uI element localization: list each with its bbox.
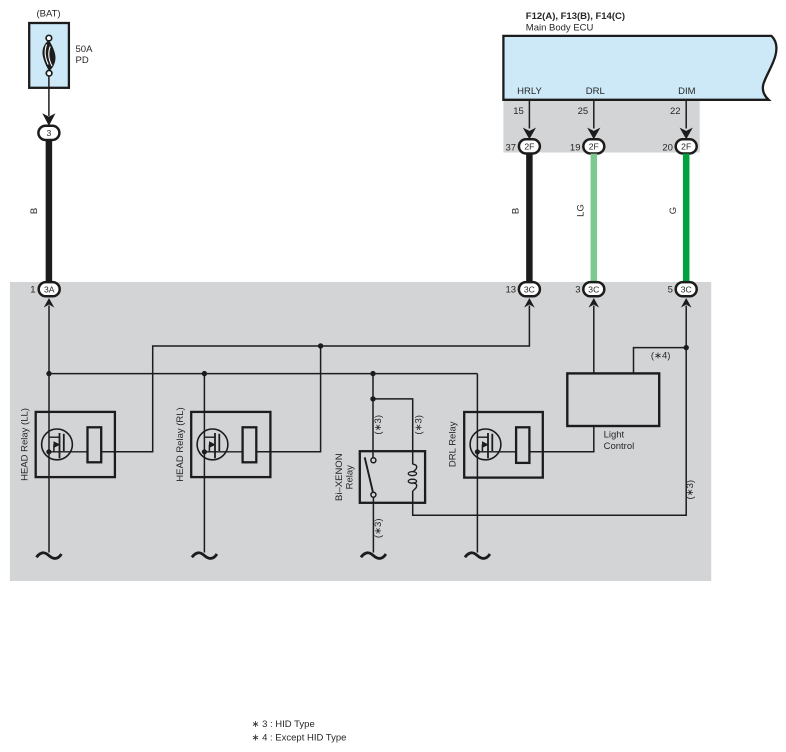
arrow below 3C: [524, 298, 535, 308]
svg-text:22: 22: [670, 106, 681, 117]
wire from 3A down to ground (HEAD LL feed): [48, 306, 50, 553]
svg-text:Main Body ECU: Main Body ECU: [526, 23, 594, 34]
resistor HEAD RL coil: [243, 427, 257, 462]
ground: [465, 553, 490, 559]
svg-text:DRL Relay: DRL Relay: [448, 421, 459, 467]
connector 3: [38, 126, 59, 140]
ground: [361, 553, 386, 559]
wire branch to HEAD RL coil: [256, 346, 320, 452]
svg-text:3C: 3C: [681, 284, 692, 294]
arrow below 3C: [681, 298, 692, 308]
svg-text:3: 3: [47, 128, 52, 138]
svg-text:50A: 50A: [76, 44, 94, 55]
svg-text:DIM: DIM: [678, 86, 696, 97]
node junction bus/HEAD RL: [202, 371, 207, 376]
svg-text:(BAT): (BAT): [36, 9, 60, 20]
transistor Q-DRL (DRL contact): [470, 429, 501, 460]
wire contact to resistor (RL): [204, 451, 242, 453]
transistor Q-RL (HEAD RL contact): [197, 429, 228, 460]
wire DRL feed down to ground: [476, 374, 478, 553]
wire coil return to 5(3C): [413, 306, 687, 516]
wire HRLY net: 13(3C) to relay coils: [101, 306, 529, 452]
main harness panel (gray): [10, 282, 711, 581]
node junction HRLY/RL: [318, 343, 323, 348]
svg-text:Bi–XENON: Bi–XENON: [334, 453, 345, 501]
svg-text:5: 5: [668, 285, 673, 296]
svg-text:PD: PD: [76, 55, 89, 66]
node junction bus at B feed: [46, 371, 51, 376]
arrow into connector 3: [42, 113, 55, 126]
wire contact to resistor (LL): [49, 451, 88, 453]
svg-text:15: 15: [513, 106, 524, 117]
wire (＊4) branch to Light Control: [634, 348, 687, 374]
Light Control unit: [567, 373, 659, 426]
svg-text:13: 13: [506, 285, 517, 296]
svg-text:25: 25: [578, 106, 589, 117]
svg-text:19: 19: [570, 142, 581, 153]
svg-text:3C: 3C: [524, 284, 535, 294]
svg-text:(∗3): (∗3): [373, 415, 384, 435]
wire DRL coil to Light Control: [529, 426, 593, 452]
svg-text:2F: 2F: [524, 142, 534, 152]
wire LG (DRL to 3-3C, light green): [591, 154, 598, 283]
svg-text:3A: 3A: [44, 284, 55, 294]
node junction bus/Bi-XENON: [370, 371, 375, 376]
ground: [36, 553, 61, 559]
arrow into 2F (20): [680, 128, 693, 140]
wire branch to Bi-XENON coil: [373, 399, 413, 464]
svg-text:∗ 4 : Except HID Type: ∗ 4 : Except HID Type: [252, 733, 347, 744]
svg-text:G: G: [668, 207, 679, 214]
wire G (DIM to 5-3C, green): [683, 154, 690, 283]
switch Bi-XENON contacts: [365, 457, 373, 492]
svg-text:Light: Light: [604, 430, 625, 441]
wire HEAD RL feed down to ground: [203, 374, 205, 553]
node junction Bi-XENON coil branch: [370, 396, 375, 401]
resistor HEAD LL coil: [88, 427, 102, 462]
svg-text:(∗4): (∗4): [651, 351, 671, 362]
arrow below 3C: [589, 298, 600, 308]
transistor Q-LL (HEAD LL contact): [42, 429, 73, 460]
svg-text:(∗3): (∗3): [685, 480, 696, 500]
svg-text:LG: LG: [576, 204, 587, 217]
wire B (HRLY to 13-3C, thick black): [526, 154, 533, 283]
svg-text:HEAD Relay (RL): HEAD Relay (RL): [175, 407, 186, 481]
svg-text:Control: Control: [604, 441, 635, 452]
arrow into 2F (37): [523, 128, 536, 140]
svg-text:B: B: [29, 208, 40, 214]
svg-text:F12(A), F13(B), F14(C): F12(A), F13(B), F14(C): [526, 11, 625, 22]
svg-text:DRL: DRL: [586, 86, 605, 97]
wire battery bus (horizontal): [49, 373, 477, 375]
wire B battery feed (thick): [46, 140, 53, 283]
resistor DRL coil: [516, 427, 529, 463]
svg-text:Relay: Relay: [345, 465, 356, 490]
node junction DIM/(＊4): [684, 345, 689, 350]
svg-text:(∗3): (∗3): [373, 519, 384, 539]
svg-text:2F: 2F: [681, 142, 691, 152]
arrow into 2F (19): [587, 128, 600, 140]
svg-text:3C: 3C: [588, 284, 599, 294]
wire Bi-XENON switch feed: [372, 374, 374, 458]
svg-text:HRLY: HRLY: [517, 86, 542, 97]
svg-text:20: 20: [662, 142, 673, 153]
svg-text:HEAD Relay (LL): HEAD Relay (LL): [20, 408, 31, 481]
svg-text:37: 37: [506, 142, 517, 153]
wire Bi-XENON switch to ground: [372, 497, 374, 552]
svg-text:2F: 2F: [589, 142, 599, 152]
svg-text:1: 1: [30, 285, 35, 296]
fuse 50A PD (fusible link): [29, 23, 69, 88]
wire fuse to connector 3: [48, 76, 50, 116]
ground: [192, 553, 217, 559]
ECU connector panel (gray strip): [503, 100, 699, 153]
arrow below 3A: [44, 298, 55, 308]
svg-text:B: B: [510, 208, 521, 214]
svg-text:∗ 3 : HID Type: ∗ 3 : HID Type: [252, 719, 315, 730]
wire contact to resistor (DRL): [477, 451, 516, 453]
svg-text:(∗3): (∗3): [413, 415, 424, 435]
inductor Bi-XENON coil: [413, 464, 417, 491]
wire 3(3C) to Light Control: [593, 306, 595, 374]
op-amp n/a : Main Body ECU block: [503, 36, 776, 100]
svg-text:3: 3: [575, 285, 580, 296]
